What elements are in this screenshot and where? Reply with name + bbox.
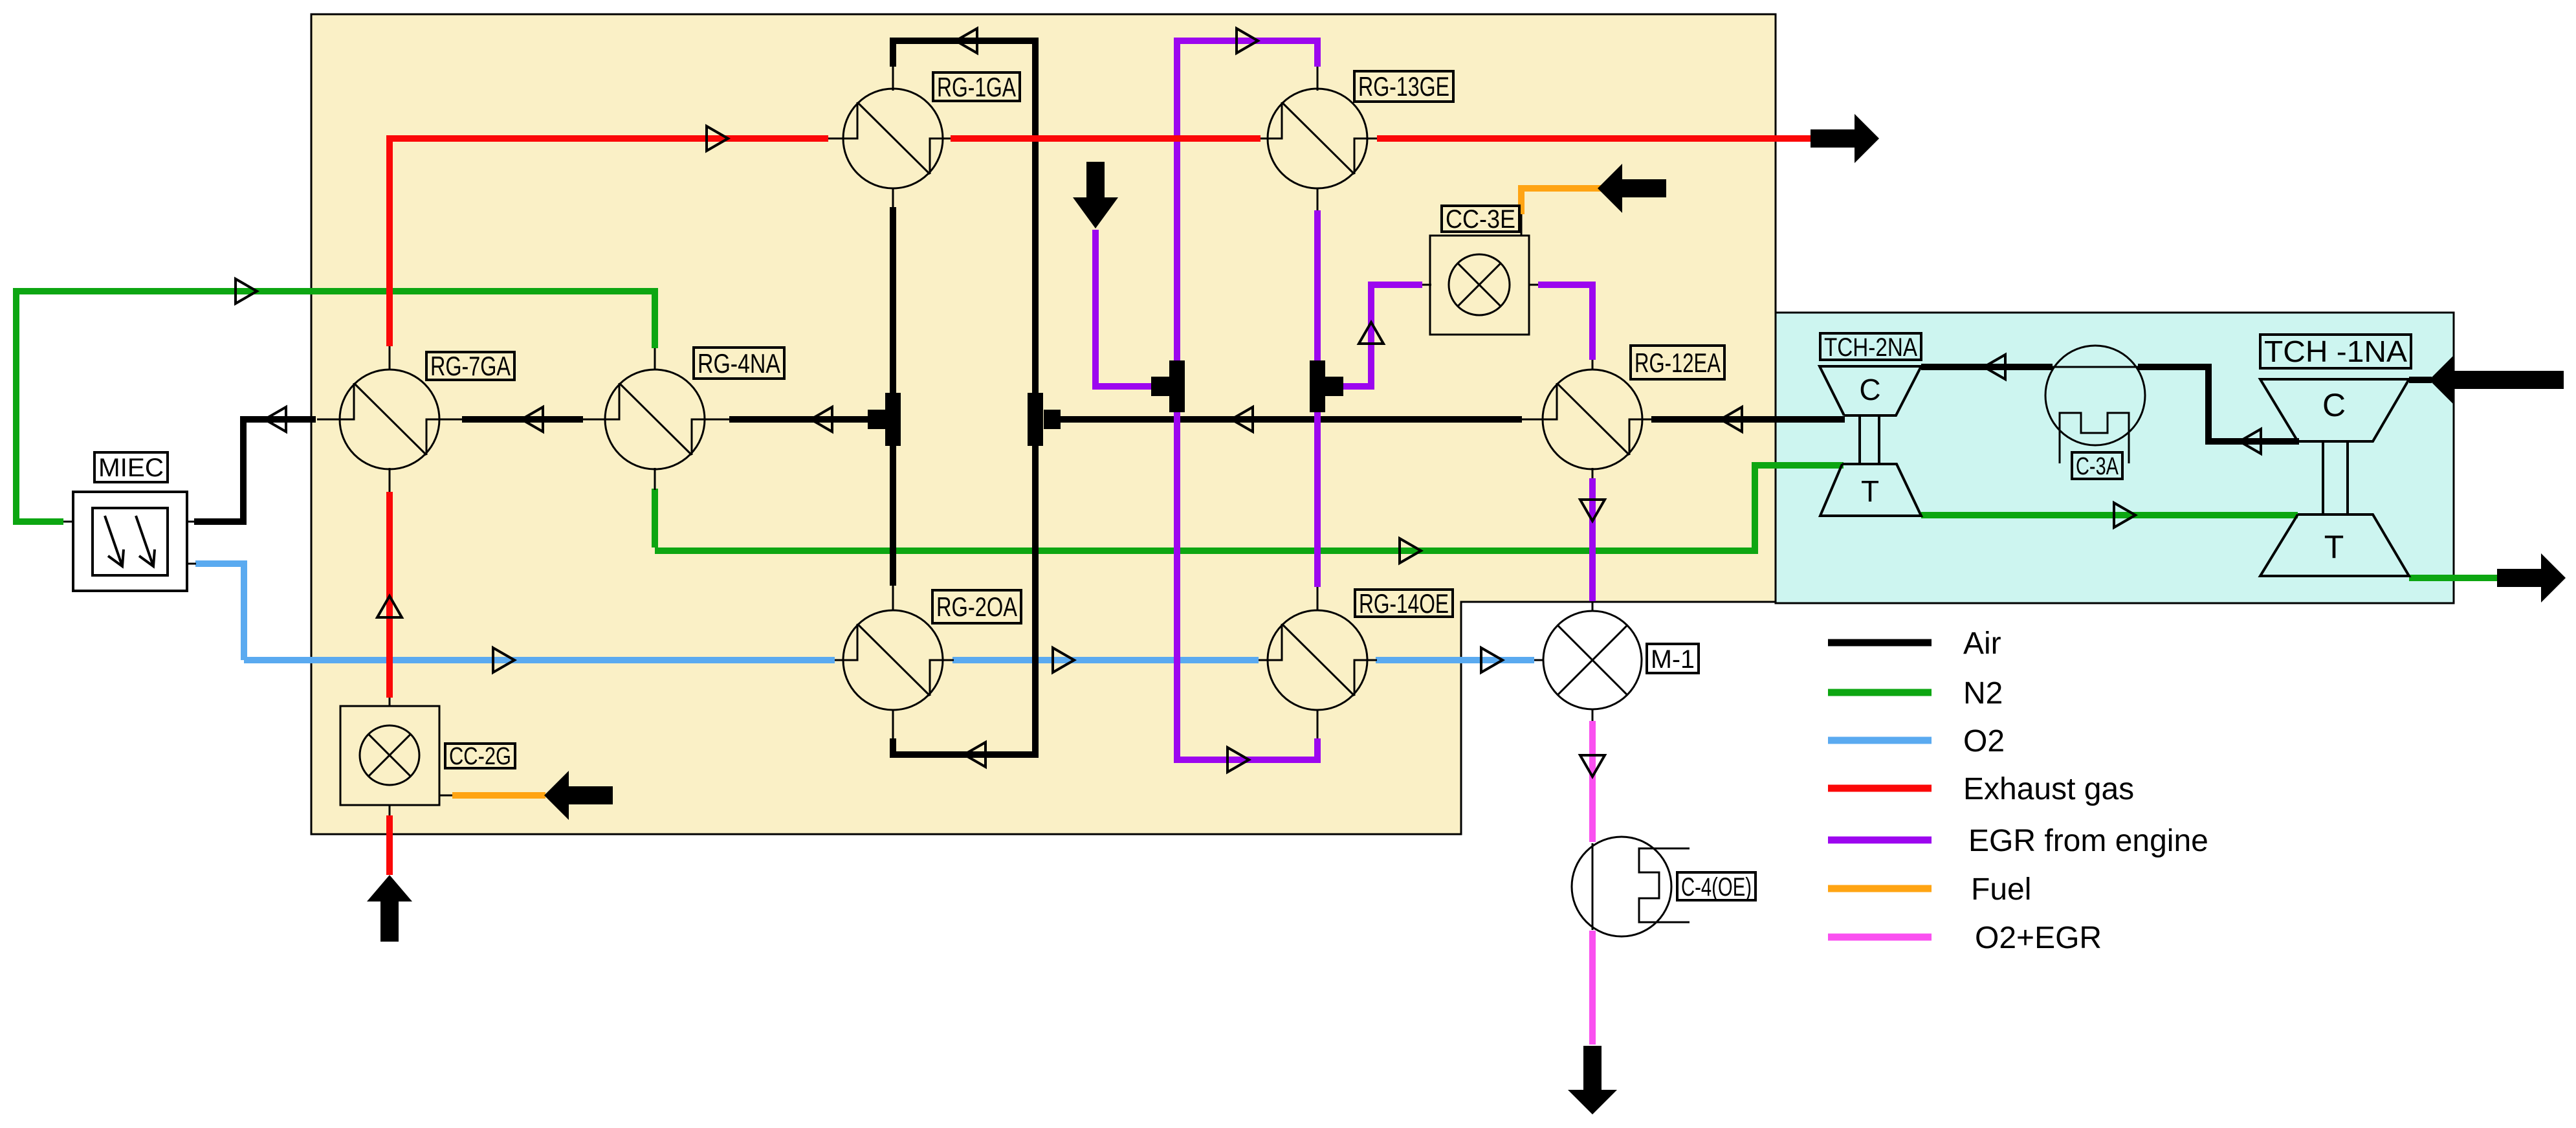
- svg-text:RG-7GA: RG-7GA: [430, 351, 511, 381]
- svg-text:TCH -1NA: TCH -1NA: [2264, 335, 2407, 368]
- svg-text:Fuel: Fuel: [1971, 872, 2031, 907]
- svg-text:RG-13GE: RG-13GE: [1358, 71, 1449, 102]
- svg-text:TCH-2NA: TCH-2NA: [1824, 333, 1917, 362]
- svg-text:RG-14OE: RG-14OE: [1359, 588, 1449, 619]
- svg-text:C-3A: C-3A: [2076, 453, 2119, 480]
- svg-text:O2+EGR: O2+EGR: [1975, 921, 2102, 955]
- svg-text:Exhaust gas: Exhaust gas: [1963, 772, 2134, 806]
- svg-text:M-1: M-1: [1651, 645, 1695, 674]
- svg-text:C: C: [1859, 373, 1880, 406]
- svg-text:EGR from engine: EGR from engine: [1968, 824, 2208, 858]
- svg-text:C-4(OE): C-4(OE): [1681, 873, 1752, 901]
- svg-text:RG-12EA: RG-12EA: [1635, 348, 1721, 378]
- svg-text:RG-2OA: RG-2OA: [936, 592, 1017, 622]
- svg-text:MIEC: MIEC: [98, 454, 164, 482]
- svg-text:RG-4NA: RG-4NA: [698, 348, 780, 379]
- svg-text:CC-3E: CC-3E: [1446, 205, 1515, 234]
- svg-text:T: T: [2324, 529, 2344, 565]
- svg-text:C: C: [2322, 387, 2346, 423]
- svg-text:RG-1GA: RG-1GA: [937, 72, 1016, 102]
- svg-text:O2: O2: [1963, 724, 2005, 758]
- svg-text:Air: Air: [1963, 626, 2001, 661]
- svg-text:T: T: [1861, 474, 1879, 508]
- svg-text:CC-2G: CC-2G: [449, 743, 511, 770]
- svg-text:N2: N2: [1963, 676, 2003, 711]
